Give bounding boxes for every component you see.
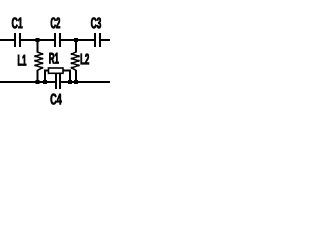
wire L1 bottom to rail [37,70,39,83]
wire bottom rail left segment [0,81,55,83]
resistor R1 box [49,68,64,73]
capacitor C1 [15,33,20,47]
junction dot R1 right lead/rail [68,80,72,84]
capacitor C4 [56,74,60,89]
wire R1 left lead [45,71,49,84]
junction dot R1 left lead/rail [43,80,47,84]
junction dot L1/rail [36,80,40,84]
wire bottom rail right segment [61,81,110,83]
label C2 [51,17,60,28]
node B junction dot on top rail [74,38,78,42]
label C3 [91,17,101,28]
label C1 [12,17,23,28]
wire top rail segment C1 to C2 [21,39,55,41]
wire L2 bottom to rail [75,70,77,83]
inductor L2 [72,52,79,70]
wire node A down to L1 [37,40,39,53]
node A junction dot on top rail [36,38,40,42]
label L2 [81,54,89,65]
wire top rail segment left of C1 [0,39,15,41]
wire R1 right lead [63,71,70,84]
inductor L1 [35,52,42,70]
label R1 [49,53,58,64]
capacitor C2 [55,33,60,47]
label L1 [18,55,26,66]
junction dot L2/rail [74,80,78,84]
capacitor C3 [95,33,100,47]
wire top rail segment right of C3 [101,39,111,41]
wire top rail segment C2 to C3 [61,39,95,41]
wire node B down to L2 [75,40,77,53]
label C4 [51,94,62,105]
